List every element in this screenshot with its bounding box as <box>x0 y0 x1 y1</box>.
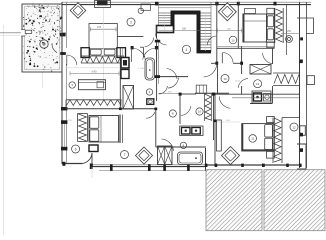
bed10 headboard <box>242 14 244 43</box>
insulated wall top right <box>274 8 276 43</box>
junction blob wardrobe-leftwall <box>61 107 67 110</box>
terrace slope arc <box>52 43 57 53</box>
junction blob right wall b <box>300 148 303 152</box>
svg-text:12: 12 <box>292 125 296 129</box>
junction mark stair-right <box>215 2 218 6</box>
corridor wall vertical <box>217 63 219 94</box>
junction blob right wall a <box>300 133 303 137</box>
bed11 dim line <box>216 121 240 123</box>
column mark a <box>205 164 208 167</box>
room number 7 <box>121 151 129 159</box>
bed bottom-left <box>89 116 119 143</box>
column mark f <box>299 164 302 167</box>
bottom wall step arc <box>81 153 92 164</box>
column mark c <box>241 164 244 167</box>
bedroom11 door arc <box>219 96 230 108</box>
room number 13 <box>254 80 262 88</box>
hatched area right <box>264 170 325 231</box>
console table top <box>95 1 111 8</box>
svg-text:14: 14 <box>223 77 227 81</box>
window bedroom6 left wall <box>61 120 67 124</box>
fireplace lower boxes <box>121 70 129 79</box>
sofa side table left <box>81 48 89 58</box>
living room right wall <box>156 26 158 39</box>
wardrobe X boxes bottom <box>158 146 173 165</box>
armchair diamond bed11 <box>222 147 240 165</box>
junction blob bath10 corner <box>179 93 182 96</box>
dim text 250 <box>281 33 300 35</box>
svg-text:13: 13 <box>256 82 260 86</box>
terrace drain circle <box>40 40 48 48</box>
wall above tub <box>156 146 206 148</box>
junction mark living-stair <box>155 2 158 6</box>
double door arcs living <box>132 48 146 60</box>
insulation zigzag bath10 <box>204 94 206 122</box>
right wall pilaster lower <box>300 126 306 136</box>
svg-text:2: 2 <box>130 20 132 24</box>
bench sawtooth below sofa <box>81 55 124 57</box>
junction blob terrace-building <box>60 33 66 36</box>
insulated wall bottom right <box>272 118 274 164</box>
extension line piano-sofa <box>103 8 105 101</box>
kitchen wall right <box>119 48 121 110</box>
junction blob x215 hall <box>215 62 218 65</box>
insulation zigzag horizontal right <box>273 72 300 74</box>
nightstand bed10 top <box>267 8 274 13</box>
svg-text:180: 180 <box>182 28 187 31</box>
shower box X <box>250 65 271 75</box>
armchair rotated bed10 <box>218 3 236 21</box>
stair left flight treads <box>159 12 171 14</box>
bedroom10 bottom wall <box>217 47 275 49</box>
wardrobe bed11 <box>217 120 222 151</box>
junction blob right wall d <box>300 60 303 64</box>
stair stringer lines <box>164 13 166 30</box>
bedroom10 left wall <box>237 2 239 48</box>
terrace door opening <box>21 30 25 37</box>
main bath wall vertical <box>156 40 158 101</box>
bottom outer wall middle <box>92 166 206 168</box>
right outer wall <box>299 2 301 168</box>
svg-text:14.00: 14.00 <box>235 81 241 83</box>
bath8 door arc <box>145 38 154 47</box>
svg-text:d-90: d-90 <box>91 70 97 73</box>
bedroom11 top wall <box>215 93 300 95</box>
stair right dim line <box>218 30 242 32</box>
junction blob right wall c <box>300 37 303 40</box>
room number 6 <box>72 145 80 153</box>
corridor8 door arc <box>162 139 174 151</box>
nightstand bed11 bottom <box>267 151 275 158</box>
bath10 right wall <box>213 94 215 140</box>
fireplace block <box>121 58 129 69</box>
column tick k <box>62 162 65 166</box>
bath8 top wall <box>117 35 143 37</box>
door arc bath13 <box>263 53 273 64</box>
wardrobe band kitchen bottom <box>66 99 122 101</box>
junction blob kitchen wall <box>119 108 122 111</box>
svg-text:1: 1 <box>186 48 188 52</box>
terrace door arc living <box>67 55 77 65</box>
terrace door leaf <box>25 30 32 33</box>
junction blob bath10 right <box>212 93 215 96</box>
room number 12 <box>290 123 298 131</box>
armchair diamond bottom <box>136 147 153 164</box>
terrace center extension line <box>42 4 44 88</box>
column mark d <box>262 164 265 167</box>
sofa dimension line <box>91 28 117 30</box>
hinge blob left door <box>131 46 134 49</box>
stair lower-left landing block <box>157 26 174 33</box>
extension lines above top wall <box>216 0 218 2</box>
hall wall y63 <box>211 62 217 64</box>
bathtub vertical <box>145 58 155 80</box>
stairwell top landing <box>159 1 212 3</box>
column tick j <box>187 164 190 171</box>
svg-text:215: 215 <box>97 25 102 29</box>
bath7 right wall <box>205 148 207 171</box>
balcony wall bedroom11 <box>282 117 300 119</box>
svg-text:6: 6 <box>75 147 77 151</box>
leftmost extension line <box>3 25 5 235</box>
armchair rotated living <box>70 3 86 19</box>
column mark e <box>286 164 289 167</box>
hinge blob right door <box>155 46 158 49</box>
tv block bedroom6 <box>89 145 98 152</box>
svg-text:1500: 1500 <box>38 31 44 33</box>
junction blob bedroom11 wall <box>214 120 217 123</box>
column tick l <box>90 164 93 170</box>
wall x241 corridor <box>241 46 243 74</box>
room number 1 hall <box>182 45 190 53</box>
bathtub horizontal <box>178 152 203 165</box>
hall door leaf and arc <box>221 53 223 64</box>
bed6 footboard <box>119 115 121 144</box>
kitchen upper dim line <box>66 67 119 69</box>
junction blob living door <box>60 52 66 55</box>
washbasin unit <box>252 91 271 103</box>
shelf above bed10 <box>245 9 256 14</box>
wall right of stairs <box>216 2 218 63</box>
bath10 door arc <box>181 106 191 116</box>
grid cabinet corridor <box>196 85 207 93</box>
bedroom7 left wall <box>155 109 157 147</box>
room number 8 corridor <box>169 110 176 117</box>
room number 11 <box>249 135 257 143</box>
door arc right of tub <box>167 69 178 80</box>
junction blob bedroom7 wall <box>154 108 157 111</box>
stair hall door arc <box>156 33 167 45</box>
junction blob bath wall top <box>155 40 160 43</box>
bedroom6 door arc <box>146 112 155 118</box>
sofa <box>89 24 117 49</box>
corridor door arc left <box>204 64 217 77</box>
stair dim line <box>159 30 217 32</box>
column mark b <box>215 164 218 167</box>
grid line A <box>91 167 93 178</box>
svg-text:1.300: 1.300 <box>138 68 144 70</box>
corridor dim line <box>158 92 180 94</box>
corridor bottom wall <box>195 92 229 94</box>
column tick g <box>110 164 113 171</box>
top outer wall <box>62 1 311 3</box>
right wall step bottom <box>297 144 306 169</box>
hall bottom wall <box>157 76 189 78</box>
corridor door arc right <box>238 79 248 88</box>
svg-text:7: 7 <box>124 153 126 157</box>
hatched area left <box>206 170 262 231</box>
closet door arc <box>207 36 216 45</box>
bath10 left wall <box>179 94 181 124</box>
junction mark insulated wall top <box>274 2 277 6</box>
room number 2 living <box>127 18 135 26</box>
small table with chair <box>141 4 151 10</box>
kitchen island <box>78 80 105 90</box>
tall cabinet X <box>123 86 134 110</box>
bed bottom-right <box>242 124 275 151</box>
toilet bath9 <box>147 99 154 105</box>
right wall pilaster upper <box>307 76 315 85</box>
left outer wall <box>61 2 63 164</box>
column tick h <box>148 164 151 171</box>
stair right flight treads <box>201 12 212 14</box>
nightstand bed11 top <box>267 117 275 123</box>
bedroom11 left wall <box>214 94 216 165</box>
stair bottom bar <box>197 50 212 53</box>
bed top-right <box>244 14 267 42</box>
room number 10 bedroom <box>229 36 237 44</box>
bottom outer wall left <box>62 163 82 165</box>
double sink vanity <box>180 126 203 136</box>
wall x286 top <box>286 5 288 55</box>
right wall step top <box>297 18 314 34</box>
terrace door dimension line <box>0 32 66 34</box>
svg-text:10: 10 <box>232 38 235 42</box>
vent circle <box>286 36 293 43</box>
sofa side table right <box>117 48 126 58</box>
room number 9 bath <box>146 89 152 95</box>
bath niche wall <box>140 46 144 48</box>
column tick i <box>163 164 166 171</box>
room number 14 corridor <box>221 75 229 83</box>
kitchen dim line <box>70 72 119 74</box>
terrace stippled concrete area <box>22 4 62 72</box>
bath9 door arc <box>159 86 168 94</box>
small circle fixture <box>180 142 186 148</box>
bottom outer wall right <box>206 164 300 166</box>
bath13 walls <box>272 49 274 65</box>
junction mark bedroom10-left <box>237 2 240 6</box>
hall door arc <box>168 78 179 89</box>
stairwell U wall <box>171 11 201 52</box>
room number 3 kitchen <box>69 82 75 88</box>
junction blob hall wall <box>155 75 160 78</box>
junction blob x241 <box>240 62 243 65</box>
nightstand bed10 bottom <box>267 42 274 47</box>
svg-text:11: 11 <box>251 137 254 141</box>
bedroom6 wardrobe zigzag <box>77 114 79 142</box>
room number 10 bath <box>196 108 203 115</box>
